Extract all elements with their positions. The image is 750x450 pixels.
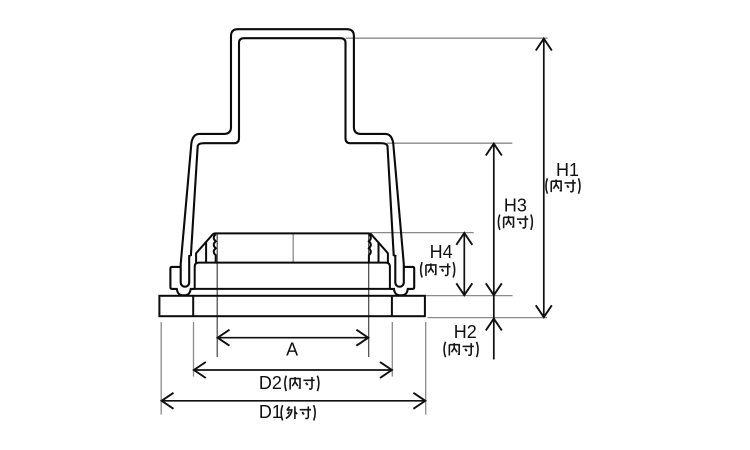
- svg-text:H2: H2: [454, 322, 477, 342]
- svg-text:D2: D2: [259, 373, 282, 393]
- svg-text:H4: H4: [430, 242, 453, 262]
- svg-text:A: A: [286, 339, 298, 359]
- svg-text:H3: H3: [504, 195, 527, 215]
- svg-text:H1: H1: [556, 160, 579, 180]
- svg-text:D1: D1: [259, 402, 282, 422]
